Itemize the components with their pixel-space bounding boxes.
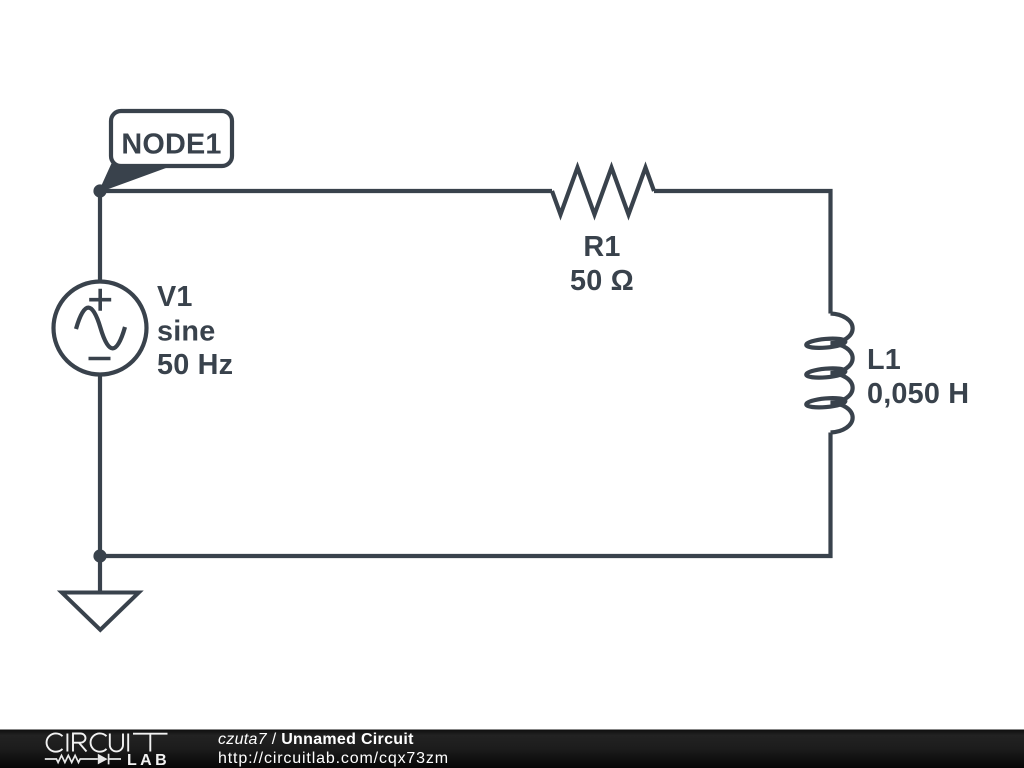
- svg-text:sine: sine: [157, 315, 215, 347]
- svg-text:czuta7 / Unnamed Circuit: czuta7 / Unnamed Circuit: [218, 731, 414, 748]
- svg-text:http://circuitlab.com/cqx73zm: http://circuitlab.com/cqx73zm: [218, 750, 449, 767]
- svg-text:50 Hz: 50 Hz: [157, 349, 233, 381]
- svg-text:50 Ω: 50 Ω: [570, 265, 634, 297]
- svg-text:V1: V1: [157, 281, 193, 313]
- svg-text:LAB: LAB: [127, 752, 170, 768]
- svg-text:L1: L1: [867, 344, 901, 376]
- svg-text:R1: R1: [583, 231, 620, 263]
- svg-text:0,050 H: 0,050 H: [867, 378, 969, 410]
- svg-text:NODE1: NODE1: [121, 128, 221, 160]
